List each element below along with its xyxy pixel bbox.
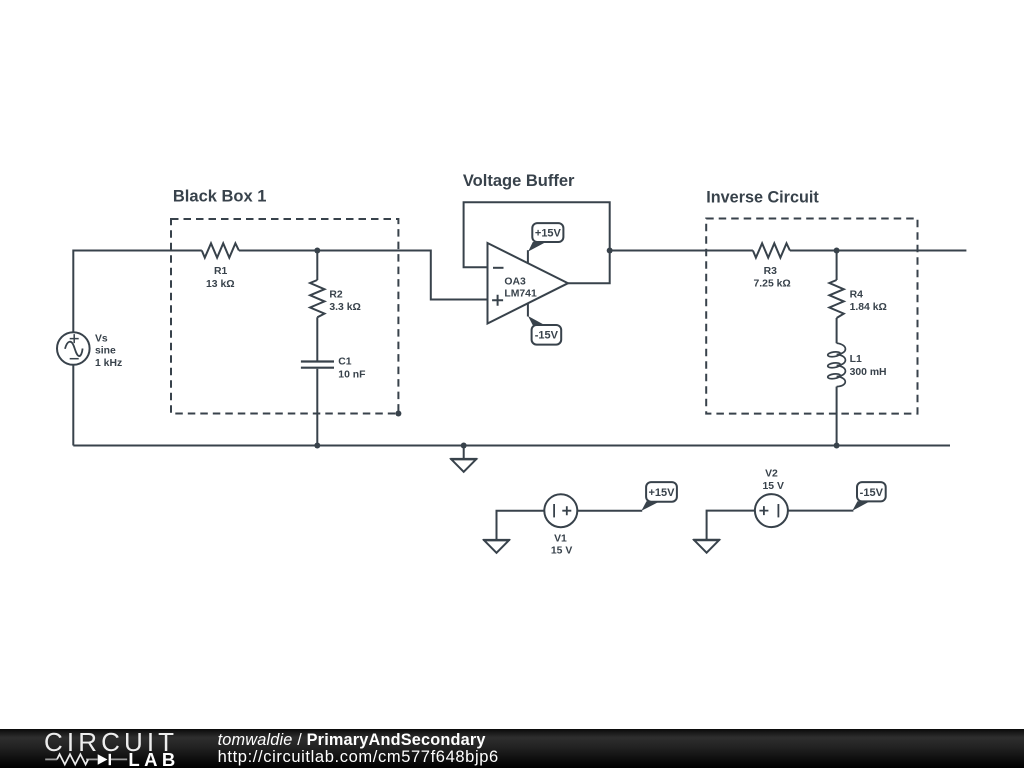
svg-text:R4: R4	[850, 289, 864, 300]
wire	[707, 511, 755, 540]
svg-text:R2: R2	[329, 290, 343, 301]
wire	[73, 445, 950, 447]
dashed box Inverse Circuit	[706, 219, 917, 414]
wire	[788, 510, 854, 512]
svg-text:10 nF: 10 nF	[338, 369, 365, 380]
svg-text:+15V: +15V	[649, 487, 676, 499]
net flag +15V (V1)	[641, 482, 676, 511]
svg-text:OA3: OA3	[504, 276, 526, 287]
dashed box Black Box 1	[171, 219, 398, 414]
svg-text:Voltage Buffer: Voltage Buffer	[463, 172, 575, 190]
node dot (C1 to rail)	[314, 443, 320, 449]
resistor R4	[829, 280, 843, 318]
ground (V1)	[483, 540, 510, 553]
svg-text:Black Box 1: Black Box 1	[173, 188, 267, 206]
node dot (ground on rail)	[461, 443, 467, 449]
wire	[316, 369, 318, 446]
footer bar	[0, 729, 1024, 768]
node dot (op-amp output)	[607, 248, 613, 254]
title Black Box 1	[173, 172, 819, 207]
svg-text:1 kHz: 1 kHz	[95, 358, 122, 369]
wire	[836, 387, 838, 446]
svg-text:L1: L1	[850, 354, 862, 365]
voltage source Vs	[57, 332, 90, 365]
wire	[316, 317, 318, 360]
wire	[239, 251, 488, 300]
wire	[73, 251, 202, 333]
wire	[497, 511, 545, 540]
svg-text:15 V: 15 V	[551, 545, 572, 556]
resistor R2	[310, 280, 324, 317]
op-amp V- pin	[527, 304, 529, 317]
voltage source V2	[755, 494, 788, 527]
svg-text:13 kΩ: 13 kΩ	[206, 279, 235, 290]
svg-text:R1: R1	[214, 266, 228, 277]
logo symbol + LAB	[0, 748, 200, 768]
wire	[836, 318, 838, 343]
wire	[577, 510, 642, 512]
svg-text:C1: C1	[338, 356, 352, 367]
resistor R1	[202, 243, 239, 257]
inductor L1	[827, 343, 845, 386]
net flag -15V (V2)	[852, 482, 885, 511]
net flag -15V (op-amp)	[528, 316, 561, 345]
capacitor C1	[301, 362, 334, 368]
svg-text:LM741: LM741	[504, 289, 537, 300]
footer url	[218, 749, 499, 766]
op-amp V+ pin	[527, 250, 529, 263]
svg-text:-15V: -15V	[535, 330, 559, 342]
svg-text:7.25 kΩ: 7.25 kΩ	[754, 279, 791, 290]
svg-text:300 mH: 300 mH	[850, 367, 887, 378]
wire	[72, 365, 74, 446]
svg-text:Inverse Circuit: Inverse Circuit	[706, 189, 819, 207]
voltage source V1	[544, 494, 577, 527]
wire	[836, 251, 838, 281]
net flag +15V (op-amp)	[528, 223, 563, 251]
ground (main rail)	[450, 446, 477, 472]
svg-text:R3: R3	[764, 266, 778, 277]
wire	[464, 202, 610, 283]
resistor R3	[753, 243, 790, 257]
ground (V2)	[693, 540, 720, 553]
svg-text:3.3 kΩ: 3.3 kΩ	[329, 302, 360, 313]
svg-text:1.84 kΩ: 1.84 kΩ	[850, 302, 887, 313]
node dot (R3/R4 junction)	[834, 248, 840, 254]
svg-text:V2: V2	[765, 468, 778, 479]
svg-text:sine: sine	[95, 346, 116, 357]
wire	[316, 251, 318, 281]
logo CIRCUIT	[44, 729, 178, 755]
wire	[610, 250, 753, 252]
wire	[790, 250, 967, 252]
svg-text:Vs: Vs	[95, 334, 108, 345]
svg-text:15 V: 15 V	[763, 481, 784, 492]
svg-text:-15V: -15V	[860, 487, 884, 499]
svg-text:+15V: +15V	[535, 228, 562, 240]
footer credit	[218, 732, 486, 748]
node dot (R1/R2 junction)	[314, 248, 320, 254]
node dot (box corner)	[395, 411, 401, 417]
node dot (L1 to rail)	[834, 443, 840, 449]
svg-text:V1: V1	[554, 534, 567, 545]
op-amp OA3	[488, 243, 569, 324]
